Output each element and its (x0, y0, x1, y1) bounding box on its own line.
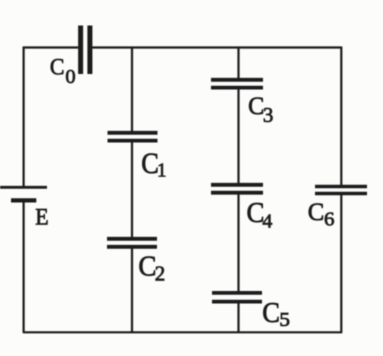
capacitor C1 (108, 133, 158, 141)
wire branch1 middle (131, 142, 133, 238)
svg-text:C: C (308, 198, 324, 225)
wire branch1 lower (131, 248, 133, 334)
wire left upper (23, 47, 25, 187)
wire branch2 seg2 (237, 89, 239, 184)
capacitor C6 (315, 187, 367, 194)
svg-text:C: C (50, 54, 65, 80)
svg-text:E: E (35, 204, 48, 230)
wire bottom (23, 331, 342, 333)
label C6 (308, 198, 335, 230)
wire right upper (340, 47, 342, 187)
svg-text:2: 2 (155, 262, 166, 286)
capacitor C5 (212, 293, 262, 302)
svg-text:1: 1 (157, 160, 166, 182)
wire right lower (340, 194, 342, 332)
label C1 (141, 148, 166, 182)
svg-text:5: 5 (279, 307, 290, 330)
label C4 (247, 197, 273, 232)
label C5 (262, 296, 290, 331)
label C3 (248, 92, 273, 127)
label C2 (138, 251, 165, 286)
svg-text:6: 6 (324, 209, 334, 230)
wire branch2 seg1 (237, 47, 239, 79)
capacitor C3 (211, 80, 263, 88)
svg-text:3: 3 (263, 103, 274, 127)
wire top-left segment (23, 46, 78, 48)
label C0 (50, 54, 76, 88)
svg-text:4: 4 (262, 210, 272, 232)
svg-text:C: C (248, 92, 264, 120)
wire top-right segment (92, 46, 341, 48)
svg-text:C: C (262, 296, 280, 328)
wire branch2 seg3 (237, 194, 239, 292)
capacitor C4 (211, 185, 263, 193)
svg-text:0: 0 (65, 66, 75, 88)
wire branch2 seg4 (237, 303, 239, 332)
wire branch1 upper (131, 47, 133, 132)
svg-text:C: C (138, 251, 156, 283)
capacitor C2 (107, 239, 157, 247)
battery E (0, 187, 47, 200)
capacitor C0 (81, 26, 90, 75)
wire left lower (23, 201, 25, 333)
label E (35, 204, 48, 230)
